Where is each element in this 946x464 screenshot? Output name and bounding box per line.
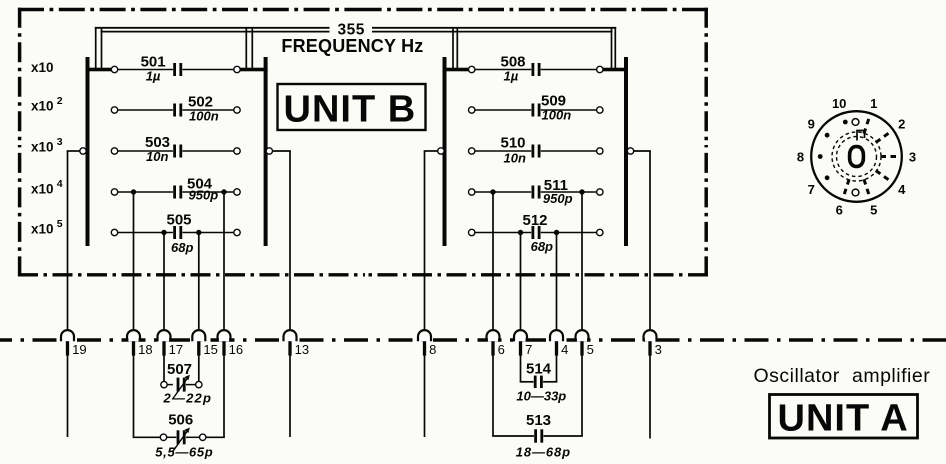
svg-text:5: 5 xyxy=(870,203,877,218)
svg-text:x10: x10 xyxy=(31,222,54,237)
svg-text:1µ: 1µ xyxy=(504,69,519,84)
svg-text:505: 505 xyxy=(167,212,192,229)
svg-text:8: 8 xyxy=(797,149,804,164)
svg-text:UNIT A: UNIT A xyxy=(778,398,909,440)
svg-text:6: 6 xyxy=(836,203,843,218)
svg-text:2: 2 xyxy=(57,95,63,107)
svg-text:Oscillator: Oscillator xyxy=(754,365,840,387)
svg-text:8: 8 xyxy=(429,342,436,357)
svg-text:514: 514 xyxy=(526,361,552,378)
svg-text:17: 17 xyxy=(169,342,183,357)
svg-text:2: 2 xyxy=(898,116,905,131)
svg-text:507: 507 xyxy=(167,361,192,378)
svg-text:18: 18 xyxy=(138,342,152,357)
svg-text:15: 15 xyxy=(203,342,217,357)
svg-text:1: 1 xyxy=(870,96,877,111)
svg-text:5: 5 xyxy=(587,342,594,357)
svg-text:10: 10 xyxy=(832,96,846,111)
svg-text:506: 506 xyxy=(168,412,193,429)
svg-text:5: 5 xyxy=(57,218,63,230)
svg-text:1µ: 1µ xyxy=(146,69,161,84)
svg-text:9: 9 xyxy=(808,116,815,131)
svg-text:3: 3 xyxy=(655,342,662,357)
svg-text:68p: 68p xyxy=(531,239,553,254)
svg-text:19: 19 xyxy=(72,342,86,357)
svg-text:100n: 100n xyxy=(189,109,219,124)
svg-text:510: 510 xyxy=(501,135,526,152)
svg-text:7: 7 xyxy=(808,182,815,197)
svg-text:x10: x10 xyxy=(31,140,54,155)
svg-text:2—22p: 2—22p xyxy=(163,391,213,406)
svg-text:10—33p: 10—33p xyxy=(516,389,566,404)
svg-text:68p: 68p xyxy=(171,240,193,255)
svg-text:x10: x10 xyxy=(31,60,54,75)
svg-text:FREQUENCY Hz: FREQUENCY Hz xyxy=(281,36,423,56)
svg-text:950p: 950p xyxy=(189,187,219,202)
svg-text:amplifier: amplifier xyxy=(852,365,930,387)
svg-text:512: 512 xyxy=(523,212,548,229)
svg-text:6: 6 xyxy=(498,342,505,357)
svg-text:10n: 10n xyxy=(504,151,526,166)
svg-text:950p: 950p xyxy=(543,191,573,206)
svg-text:3: 3 xyxy=(909,149,916,164)
svg-text:UNIT B: UNIT B xyxy=(284,89,417,131)
svg-text:16: 16 xyxy=(229,342,243,357)
svg-text:4: 4 xyxy=(561,342,568,357)
svg-text:3: 3 xyxy=(57,136,63,148)
svg-text:7: 7 xyxy=(525,342,532,357)
svg-text:18—68p: 18—68p xyxy=(516,445,571,460)
svg-text:x10: x10 xyxy=(31,182,54,197)
svg-text:13: 13 xyxy=(295,342,309,357)
svg-text:10n: 10n xyxy=(146,149,168,164)
svg-text:100n: 100n xyxy=(542,108,572,123)
svg-text:4: 4 xyxy=(898,182,906,197)
svg-text:4: 4 xyxy=(57,178,63,190)
svg-text:x10: x10 xyxy=(31,99,54,114)
svg-text:513: 513 xyxy=(526,412,551,429)
svg-text:5,5—65p: 5,5—65p xyxy=(155,445,213,460)
